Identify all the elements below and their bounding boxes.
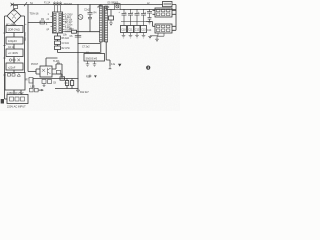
svg-text:R6 1k0: R6 1k0 [62, 38, 70, 40]
svg-text:LED: LED [31, 87, 36, 89]
svg-text:C14: C14 [147, 30, 152, 32]
svg-text:SNDIS #3: SNDIS #3 [86, 56, 98, 60]
svg-text:D5 SB560: D5 SB560 [108, 2, 119, 4]
svg-text:C7 2n2: C7 2n2 [82, 46, 90, 48]
svg-text:M2 4A7s: M2 4A7s [6, 22, 17, 26]
svg-text:2DR-2%Ω: 2DR-2%Ω [8, 28, 20, 32]
svg-text:PC817: PC817 [31, 64, 39, 66]
svg-text:F1 2A: F1 2A [44, 2, 51, 5]
svg-text:≤22nF: ≤22nF [8, 65, 16, 69]
svg-text:R10: R10 [86, 77, 91, 79]
svg-text:220V AC INPUT: 220V AC INPUT [7, 105, 26, 109]
svg-text:TDA-16: TDA-16 [30, 12, 39, 16]
svg-text:4Ω: 4Ω [86, 52, 89, 54]
svg-text:+C 400V: +C 400V [8, 51, 18, 55]
svg-text:TMS-220: TMS-220 [25, 32, 27, 41]
svg-text:C11: C11 [128, 30, 133, 32]
svg-text:C2 1n: C2 1n [8, 47, 15, 49]
svg-text:R12 4k7: R12 4k7 [80, 92, 89, 94]
svg-text:C10: C10 [121, 30, 126, 32]
svg-text:C12: C12 [135, 30, 140, 32]
svg-text:C13: C13 [141, 30, 146, 32]
svg-text:R2 47Ω: R2 47Ω [62, 48, 70, 50]
svg-text:TNY267: TNY267 [64, 4, 73, 6]
svg-text:4×BD139 25W: 4×BD139 25W [7, 91, 24, 95]
svg-text:1G: 1G [111, 62, 116, 66]
svg-text:C2n2: C2n2 [84, 10, 90, 12]
svg-text:C3 10n: C3 10n [62, 43, 70, 45]
svg-text:100μF±: 100μF± [8, 39, 17, 43]
